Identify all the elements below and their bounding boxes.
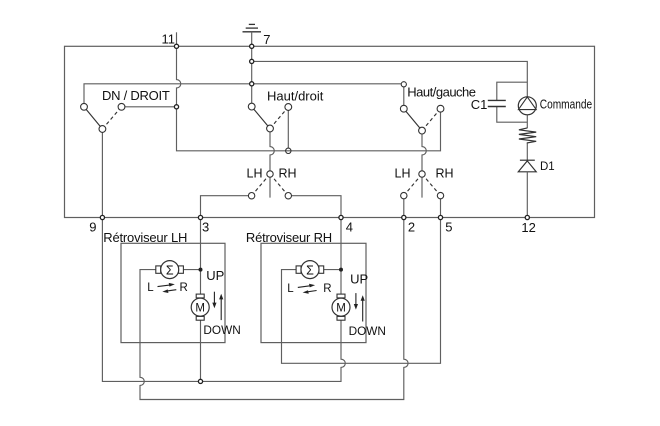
terminal circle on y151 run <box>286 148 291 153</box>
LH pivot motor M <box>191 294 209 320</box>
svg-text:7: 7 <box>263 32 270 47</box>
Haut/droit pivot contact <box>267 125 274 132</box>
switch LH/RH-2 dashed contacts <box>404 174 441 196</box>
DN/DROIT left contact <box>81 103 88 110</box>
RH left arrow <box>303 290 317 294</box>
wire diode to pin 12 <box>526 172 528 218</box>
switch Haut/gauche solid contact <box>404 109 422 131</box>
RH right arrow <box>298 284 315 288</box>
resistor <box>519 128 536 144</box>
junction node 7 / ground bus <box>250 82 254 86</box>
svg-text:Commande: Commande <box>540 97 592 111</box>
wire y61 run to Commande branch <box>252 61 528 97</box>
LH right arrow <box>158 283 175 287</box>
switch Haut/droit solid contact <box>252 107 270 129</box>
node pin 9 <box>100 215 104 219</box>
junction node 11 top edge <box>174 44 178 48</box>
capacitor C1 bracket wires <box>497 82 528 100</box>
junction pin9 bus / LH motor M <box>198 379 202 383</box>
svg-text:Haut/gauche: Haut/gauche <box>407 85 475 100</box>
svg-text:4: 4 <box>346 220 353 235</box>
svg-text:Σ: Σ <box>166 263 174 277</box>
svg-text:DOWN: DOWN <box>349 324 386 338</box>
switch Haut/droit dashed contact <box>270 107 288 129</box>
junction dot RH sigma tap <box>339 268 343 272</box>
svg-text:Σ: Σ <box>306 263 314 277</box>
wire Haut/droit pivot to LH/RH pivot with hop <box>270 129 274 198</box>
RH down arrow <box>354 293 358 310</box>
Haut/droit left contact <box>248 103 255 110</box>
node pin 12 <box>525 215 529 219</box>
wire DN/DROIT right contact to pin11 line <box>122 106 177 108</box>
junction node 7 top edge <box>250 44 254 48</box>
wire Haut/droit right contact stub <box>287 107 289 148</box>
svg-text:L: L <box>147 282 154 294</box>
svg-text:M: M <box>336 303 346 315</box>
LH/RH-2 LH contact <box>401 192 407 198</box>
svg-text:L: L <box>287 283 294 295</box>
ground <box>243 24 262 31</box>
node pin 5 <box>438 215 442 219</box>
svg-text:UP: UP <box>350 272 368 287</box>
LH/RH-1 LH contact <box>248 193 254 199</box>
svg-text:9: 9 <box>89 220 96 235</box>
switch Haut/gauche dashed contact <box>422 109 441 131</box>
svg-text:DOWN: DOWN <box>203 323 240 337</box>
svg-text:RH: RH <box>436 167 454 181</box>
svg-text:Rétroviseur LH: Rétroviseur LH <box>103 230 187 245</box>
wire resistor to diode <box>526 144 528 161</box>
node pin 4 <box>339 215 343 219</box>
junction dot LH sigma tap <box>199 268 203 272</box>
junction node 11 / DN-DROIT <box>174 105 178 109</box>
LH/RH-2 pivot contact <box>419 171 425 177</box>
DN/DROIT pivot contact <box>99 126 106 133</box>
svg-text:3: 3 <box>202 220 209 235</box>
LH/RH-1 pivot contact <box>267 171 273 177</box>
svg-text:12: 12 <box>521 220 535 235</box>
svg-text:5: 5 <box>445 220 452 235</box>
svg-text:M: M <box>195 303 205 315</box>
control unit outer box <box>65 46 595 217</box>
Haut/gauche pivot contact <box>419 127 426 134</box>
switch DN/DROIT solid contact <box>84 107 102 129</box>
svg-text:UP: UP <box>206 268 224 283</box>
LH sigma motor <box>156 261 184 279</box>
wire LH/RH-2 left contact to pin 2, hop, y399.5 run, hop, up to LH sigma motor <box>140 196 408 400</box>
LH up arrow <box>219 294 223 320</box>
LH down arrow <box>212 292 216 309</box>
svg-text:RH: RH <box>279 167 297 181</box>
Haut/droit right contact <box>285 104 292 111</box>
svg-text:LH: LH <box>395 167 411 181</box>
wire pin11 tick <box>176 32 178 46</box>
junction node 7 / Commande branch <box>250 59 254 63</box>
LH/RH-2 RH contact <box>437 192 443 198</box>
svg-text:11: 11 <box>162 31 176 46</box>
svg-text:2: 2 <box>408 220 415 235</box>
Haut/gauche right contact <box>437 105 444 112</box>
wire Haut/gauche left contact link <box>403 84 405 109</box>
wire Haut/gauche pivot to LH/RH pivot with hop <box>422 131 426 198</box>
wire pin7 stem <box>251 32 253 107</box>
RH up arrow <box>361 295 365 321</box>
LH left arrow <box>162 289 176 293</box>
Haut/gauche left contact <box>400 105 407 112</box>
Retroviseur RH box <box>261 243 366 342</box>
wire y84 ground distribution run <box>84 84 404 107</box>
RH pivot motor M <box>332 294 350 320</box>
wire LH sigma to main line <box>183 269 200 271</box>
Retroviseur LH box <box>121 243 225 342</box>
LH/RH-1 RH contact <box>285 193 291 199</box>
svg-text:Haut/droit: Haut/droit <box>267 89 324 104</box>
terminal circle end of ground run <box>401 82 406 87</box>
svg-text:LH: LH <box>247 167 263 181</box>
wire LH/RH-2 right contact to pin 5, y363 run, up to RH sigma motor <box>282 196 441 364</box>
wire LH/RH-1 right contact to pin 4, RH motor line, hop, y381 run, up pin 9 to DN/DROIT pivot <box>102 129 345 381</box>
svg-text:Rétroviseur RH: Rétroviseur RH <box>246 230 332 245</box>
node pin 2 <box>402 215 406 219</box>
wire pin11 vertical with hop over y84 line, corner to y151 run, up to Haut/gauche right contact <box>177 46 441 151</box>
svg-text:R: R <box>323 283 331 295</box>
svg-text:R: R <box>180 282 188 294</box>
capacitor C1 plates <box>488 100 506 106</box>
switch LH/RH-1 dashed contacts <box>252 174 289 196</box>
wire RH sigma to main line <box>324 269 341 271</box>
wire Commande motor to resistor <box>526 115 528 129</box>
Commande motor symbol <box>518 97 536 115</box>
node pin 3 <box>198 215 202 219</box>
svg-text:D1: D1 <box>540 161 555 173</box>
wire LH/RH-1 left contact to pin 3 to LH mirror main line <box>201 196 252 382</box>
diode D1 <box>518 160 536 172</box>
svg-text:DN / DROIT: DN / DROIT <box>102 88 170 103</box>
RH sigma motor <box>296 261 324 279</box>
switch DN/DROIT dashed contact <box>102 107 121 129</box>
DN/DROIT right contact <box>118 103 125 110</box>
